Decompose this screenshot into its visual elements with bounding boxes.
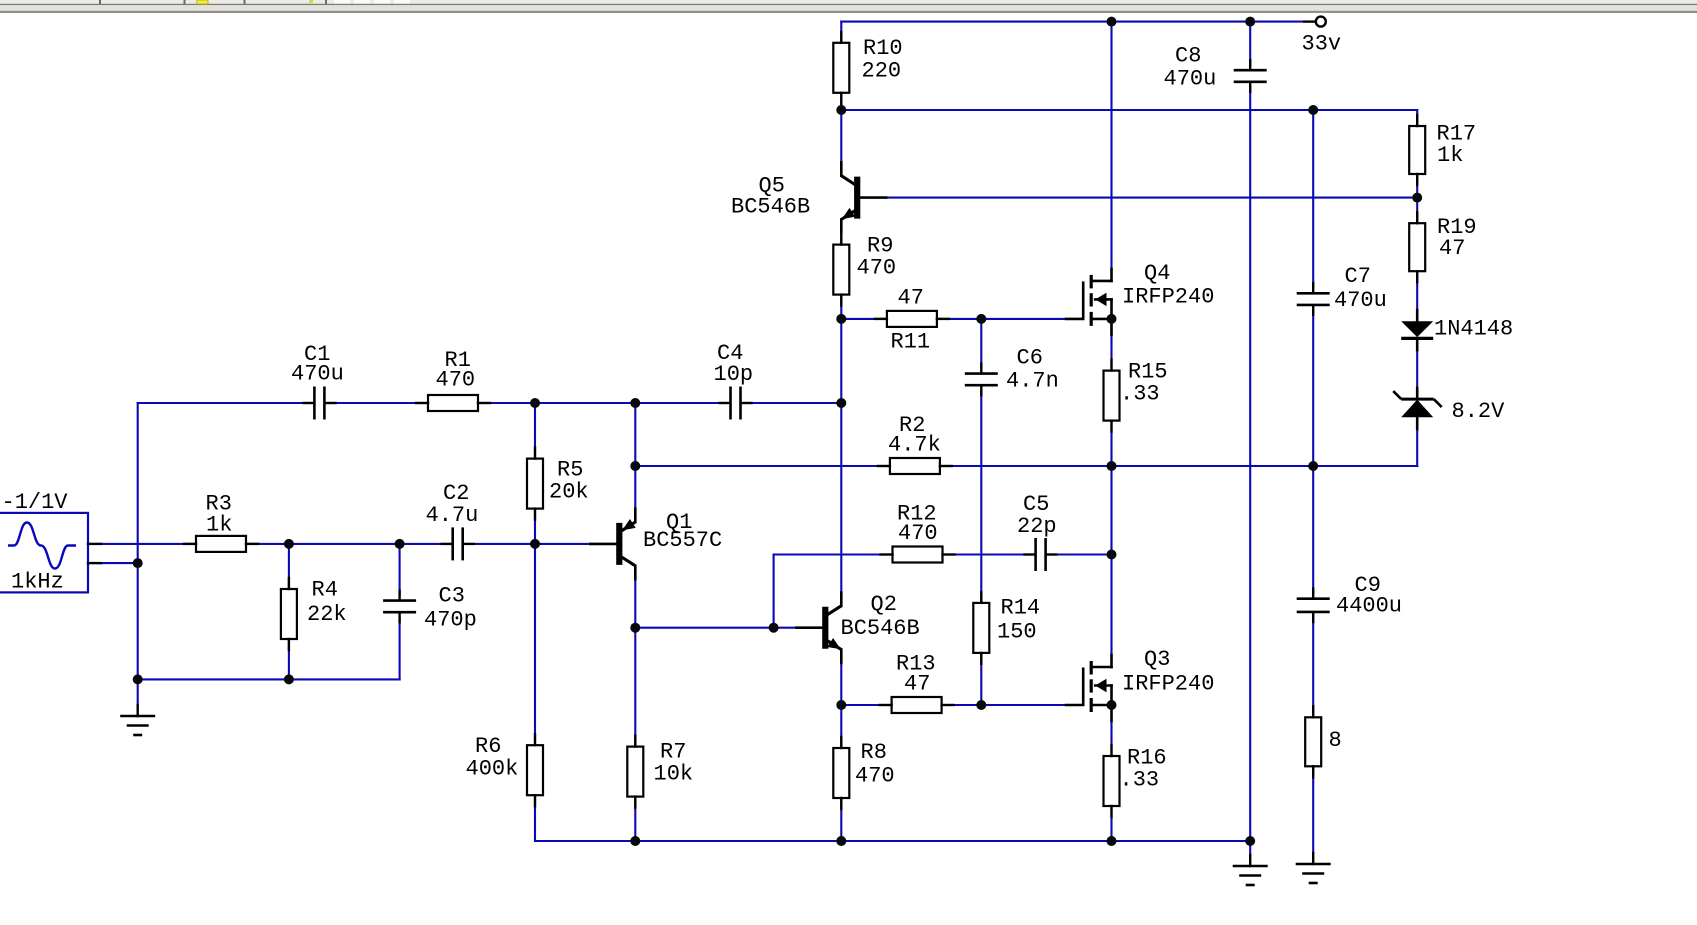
svg-text:220: 220 [862, 59, 902, 84]
svg-text:BC546B: BC546B [841, 616, 920, 641]
svg-text:4400u: 4400u [1336, 594, 1402, 619]
svg-text:8: 8 [1329, 728, 1342, 753]
svg-text:-1/1V: -1/1V [2, 490, 69, 515]
svg-text:C3: C3 [439, 584, 465, 609]
svg-text:47: 47 [898, 286, 924, 311]
svg-text:8.2V: 8.2V [1452, 399, 1506, 424]
svg-text:C6: C6 [1017, 346, 1043, 371]
svg-text:22k: 22k [307, 602, 347, 627]
svg-text:C7: C7 [1345, 264, 1371, 289]
svg-text:470u: 470u [291, 362, 344, 387]
svg-text:C8: C8 [1175, 44, 1201, 69]
svg-text:150: 150 [997, 620, 1037, 645]
svg-text:47: 47 [904, 672, 930, 697]
svg-text:Q3: Q3 [1144, 647, 1170, 672]
svg-text:400k: 400k [466, 757, 519, 782]
svg-text:Q2: Q2 [871, 592, 897, 617]
svg-text:22p: 22p [1017, 514, 1057, 539]
svg-text:4.7k: 4.7k [888, 433, 941, 458]
svg-text:R11: R11 [891, 330, 931, 355]
svg-text:470: 470 [436, 368, 476, 393]
svg-text:BC546B: BC546B [731, 195, 810, 220]
svg-text:Q4: Q4 [1144, 261, 1170, 286]
svg-text:IRFP240: IRFP240 [1122, 672, 1214, 697]
svg-text:R14: R14 [1001, 596, 1041, 621]
svg-text:R4: R4 [312, 578, 338, 603]
svg-text:1N4148: 1N4148 [1434, 317, 1513, 342]
svg-text:1kHz: 1kHz [11, 570, 64, 595]
svg-text:.33: .33 [1120, 382, 1160, 407]
svg-text:1k: 1k [1437, 143, 1463, 168]
svg-text:.33: .33 [1120, 768, 1160, 793]
svg-text:10k: 10k [654, 762, 694, 787]
svg-text:47: 47 [1439, 236, 1465, 261]
svg-text:1k: 1k [206, 513, 232, 538]
svg-text:470p: 470p [424, 608, 477, 633]
svg-text:10p: 10p [714, 362, 754, 387]
svg-text:470: 470 [857, 256, 897, 281]
svg-text:BC557C: BC557C [643, 528, 722, 553]
svg-text:R8: R8 [861, 740, 887, 765]
svg-text:R6: R6 [475, 734, 501, 759]
svg-text:470u: 470u [1164, 67, 1217, 92]
svg-text:20k: 20k [549, 480, 589, 505]
svg-text:470: 470 [855, 764, 895, 789]
svg-text:4.7u: 4.7u [426, 503, 479, 528]
svg-text:4.7n: 4.7n [1006, 369, 1059, 394]
svg-text:470u: 470u [1334, 288, 1387, 313]
svg-text:R10: R10 [863, 36, 903, 61]
svg-text:IRFP240: IRFP240 [1122, 285, 1214, 310]
svg-text:33v: 33v [1302, 32, 1342, 57]
svg-text:470: 470 [898, 521, 938, 546]
